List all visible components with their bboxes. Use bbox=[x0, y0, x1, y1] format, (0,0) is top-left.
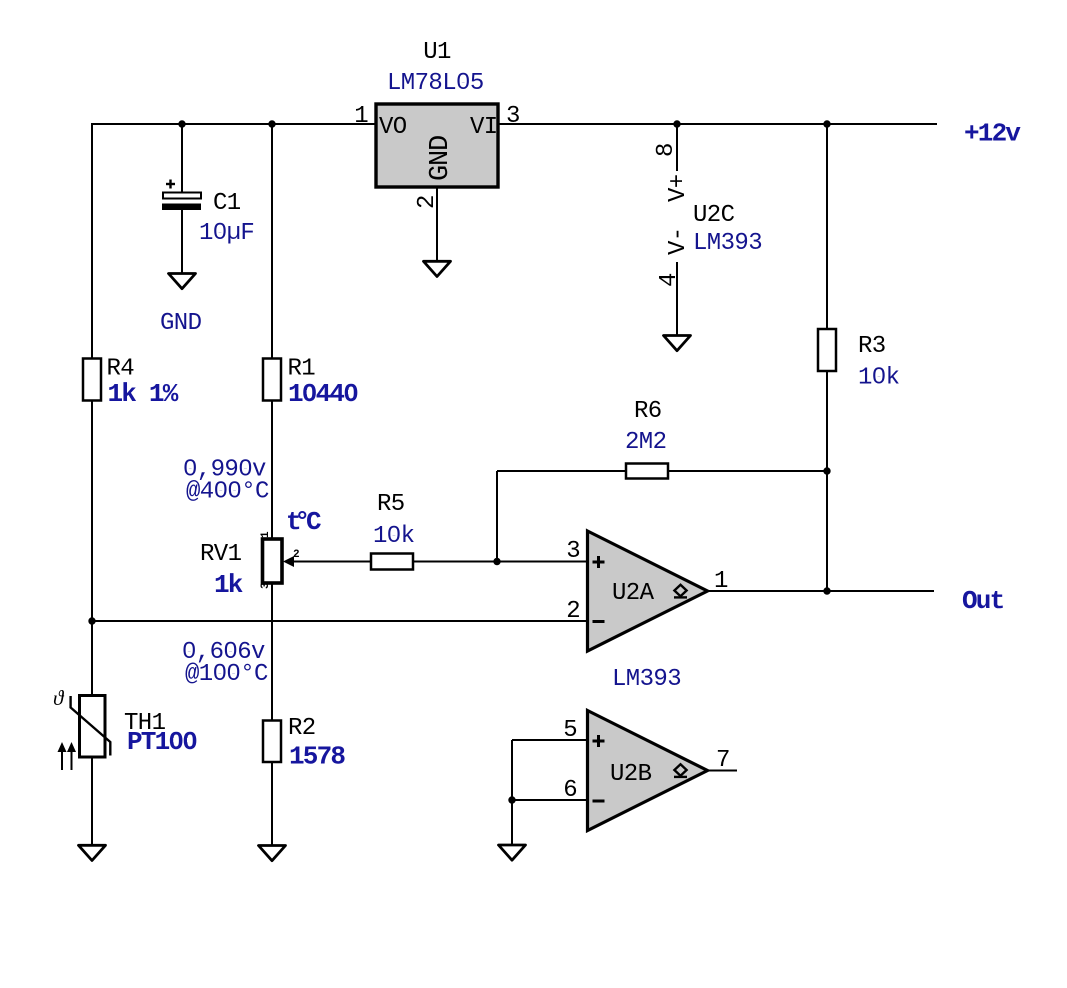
R5 value label 10k bbox=[373, 523, 415, 550]
wire U1 ground pin bbox=[436, 186, 438, 262]
junction U2B node bbox=[508, 796, 515, 803]
wire R6 row bbox=[497, 470, 827, 472]
U2C pin 4 number bbox=[656, 273, 683, 287]
svg-text:C1: C1 bbox=[213, 190, 241, 217]
R4 value label 1k 1% bbox=[108, 379, 179, 409]
svg-text:VO: VO bbox=[379, 114, 407, 141]
ground under R2 bbox=[259, 846, 286, 861]
U2A pin 3 number bbox=[566, 538, 580, 565]
resistor R1 bbox=[263, 359, 281, 401]
resistor R6 bbox=[626, 464, 668, 479]
label Out bbox=[962, 586, 1004, 616]
svg-text:3: 3 bbox=[566, 538, 580, 565]
RV1 reference label bbox=[200, 541, 242, 568]
svg-text:R5: R5 bbox=[377, 491, 405, 518]
svg-text:V-: V- bbox=[665, 227, 692, 255]
junction C1 top bbox=[178, 120, 185, 127]
C1 reference label bbox=[213, 190, 241, 217]
thermistor TH1 bbox=[53, 686, 110, 770]
U2B pin 6 number bbox=[563, 777, 577, 804]
svg-text:VI: VI bbox=[470, 114, 498, 141]
svg-text:1k 1%: 1k 1% bbox=[108, 379, 179, 409]
TH1 reference label bbox=[124, 710, 166, 737]
svg-text:10k: 10k bbox=[858, 365, 900, 392]
R1 reference label bbox=[288, 356, 316, 383]
ground under TH1 bbox=[79, 845, 106, 860]
label t°C bbox=[286, 507, 321, 537]
wire U2B minus input bbox=[512, 799, 587, 801]
junction R6 right bbox=[823, 467, 830, 474]
R6 reference label bbox=[634, 398, 662, 425]
svg-text:10k: 10k bbox=[373, 523, 415, 550]
svg-text:+12v: +12v bbox=[964, 119, 1021, 149]
wire C1 bottom stub to ground bbox=[181, 209, 183, 274]
U2A reference label bbox=[612, 580, 655, 607]
resistor R3 bbox=[818, 329, 836, 371]
svg-text:GND: GND bbox=[160, 310, 202, 337]
svg-text:1k: 1k bbox=[214, 570, 243, 600]
svg-text:5: 5 bbox=[563, 717, 577, 744]
wire U2B output bbox=[707, 770, 737, 772]
RV1 pin 2 number bbox=[293, 549, 300, 561]
TH1 value label PT100 bbox=[127, 727, 197, 757]
power unit U2C reference label bbox=[693, 202, 735, 229]
U2B pin 5 number bbox=[563, 717, 577, 744]
annotation 0,606v @100°C bbox=[182, 639, 268, 688]
U2A pin 2 number bbox=[566, 598, 580, 625]
R5 reference label bbox=[377, 491, 405, 518]
wire U2B plus input bbox=[512, 739, 587, 741]
op-amp U2A bbox=[588, 531, 708, 651]
R3 reference label bbox=[858, 333, 886, 360]
RV1 pin 1 number bbox=[260, 531, 272, 538]
svg-text:2: 2 bbox=[414, 195, 441, 209]
R2 value label 1578 bbox=[289, 742, 345, 772]
R4 reference label bbox=[107, 356, 135, 383]
ground under U1 bbox=[424, 261, 451, 276]
resistor R2 bbox=[263, 721, 281, 763]
svg-text:3: 3 bbox=[260, 582, 272, 589]
ground under C1 bbox=[169, 274, 196, 289]
ground under U2B bbox=[499, 845, 526, 860]
C1 value label 10µF bbox=[199, 220, 254, 247]
wire C1 top stub bbox=[181, 124, 183, 193]
U2C pin name V- bbox=[665, 227, 692, 255]
svg-text:LM78L05: LM78L05 bbox=[387, 70, 484, 97]
svg-text:GND: GND bbox=[426, 136, 456, 181]
svg-text:@400°C: @400°C bbox=[186, 479, 269, 506]
svg-text:U2B: U2B bbox=[610, 761, 652, 788]
U2A pin 1 number bbox=[714, 568, 728, 595]
U2C pin 8 number bbox=[653, 143, 680, 157]
junction node A feedback bbox=[493, 558, 500, 565]
zero glyph dot covers (match plain zeros of target font) bbox=[173, 79, 881, 743]
annotation 0,990v @400°C bbox=[183, 457, 269, 506]
svg-text:@100°C: @100°C bbox=[185, 661, 268, 688]
svg-text:4: 4 bbox=[656, 273, 683, 287]
svg-text:10µF: 10µF bbox=[199, 220, 254, 247]
svg-text:1578: 1578 bbox=[289, 742, 345, 772]
junction R3 top bbox=[823, 120, 830, 127]
U2A value label LM393 bbox=[612, 666, 681, 693]
svg-text:U2A: U2A bbox=[612, 580, 655, 607]
wire U2C V- stub bbox=[676, 262, 678, 336]
op-amp U2B bbox=[588, 711, 708, 831]
wire U2A output bbox=[708, 590, 934, 592]
svg-text:1: 1 bbox=[260, 531, 272, 538]
wire feedback vertical at node bbox=[496, 471, 498, 562]
U1 pin 1 number bbox=[354, 103, 368, 130]
wire R1 column bbox=[271, 124, 273, 846]
label +12v bbox=[964, 119, 1021, 149]
svg-text:3: 3 bbox=[506, 103, 520, 130]
svg-text:7: 7 bbox=[716, 747, 730, 774]
potentiometer RV1 bbox=[263, 539, 295, 583]
junction R1 top bbox=[268, 120, 275, 127]
svg-text:2: 2 bbox=[293, 549, 300, 561]
svg-text:R6: R6 bbox=[634, 398, 662, 425]
svg-text:LM393: LM393 bbox=[612, 666, 681, 693]
svg-text:U2C: U2C bbox=[693, 202, 735, 229]
svg-text:8: 8 bbox=[653, 143, 680, 157]
U1 pin name VI bbox=[470, 114, 498, 141]
svg-text:1: 1 bbox=[714, 568, 728, 595]
svg-text:2M2: 2M2 bbox=[625, 429, 666, 456]
wire left column bbox=[91, 123, 93, 846]
U1 value label LM78L05 bbox=[387, 70, 484, 97]
svg-text:R2: R2 bbox=[288, 715, 316, 742]
svg-text:10440: 10440 bbox=[288, 379, 358, 409]
wire U2C V+ stub bbox=[676, 124, 678, 171]
wire U2B left vertical to ground bbox=[511, 740, 513, 846]
svg-text:LM393: LM393 bbox=[693, 230, 762, 257]
wire top rail bbox=[92, 123, 937, 125]
svg-text:ϑ: ϑ bbox=[53, 686, 65, 710]
svg-text:1: 1 bbox=[354, 103, 368, 130]
resistor R4 bbox=[83, 359, 101, 401]
U2B reference label bbox=[610, 761, 652, 788]
U1 reference label bbox=[423, 39, 451, 66]
R3 value label 10k bbox=[858, 365, 900, 392]
regulator U1 body bbox=[376, 104, 498, 187]
RV1 value label 1k bbox=[214, 570, 243, 600]
U1 pin 3 number bbox=[506, 103, 520, 130]
resistor R5 bbox=[371, 554, 413, 570]
svg-text:6: 6 bbox=[563, 777, 577, 804]
svg-text:2: 2 bbox=[566, 598, 580, 625]
wire long horizontal to U2A inverting input bbox=[92, 620, 587, 622]
svg-text:Out: Out bbox=[962, 586, 1004, 616]
U1 pin name VO bbox=[379, 114, 407, 141]
svg-text:PT100: PT100 bbox=[127, 727, 197, 757]
U1 pin name GND bbox=[426, 136, 456, 181]
svg-text:R3: R3 bbox=[858, 333, 886, 360]
R2 reference label bbox=[288, 715, 316, 742]
wire R3 column bbox=[826, 124, 828, 591]
wire RV1 wiper to R5 to U2A plus input bbox=[290, 561, 587, 563]
junction TH1 node bbox=[88, 617, 95, 624]
U2B pin 7 number bbox=[716, 747, 730, 774]
R6 value label 2M2 bbox=[625, 429, 666, 456]
net label GND bbox=[160, 310, 202, 337]
ground under U2C bbox=[664, 336, 691, 351]
svg-text:RV1: RV1 bbox=[200, 541, 242, 568]
junction U2C top bbox=[673, 120, 680, 127]
svg-text:C: C bbox=[306, 507, 321, 537]
capacitor C1 bbox=[162, 180, 201, 211]
RV1 pin 3 number bbox=[260, 582, 272, 589]
U1 pin 2 number bbox=[414, 195, 441, 209]
U2C value label LM393 bbox=[693, 230, 762, 257]
junction output node bbox=[823, 587, 830, 594]
svg-text:U1: U1 bbox=[423, 39, 451, 66]
U2C pin name V+ bbox=[665, 174, 692, 202]
svg-text:V+: V+ bbox=[665, 174, 692, 202]
R1 value label 10440 bbox=[288, 379, 358, 409]
